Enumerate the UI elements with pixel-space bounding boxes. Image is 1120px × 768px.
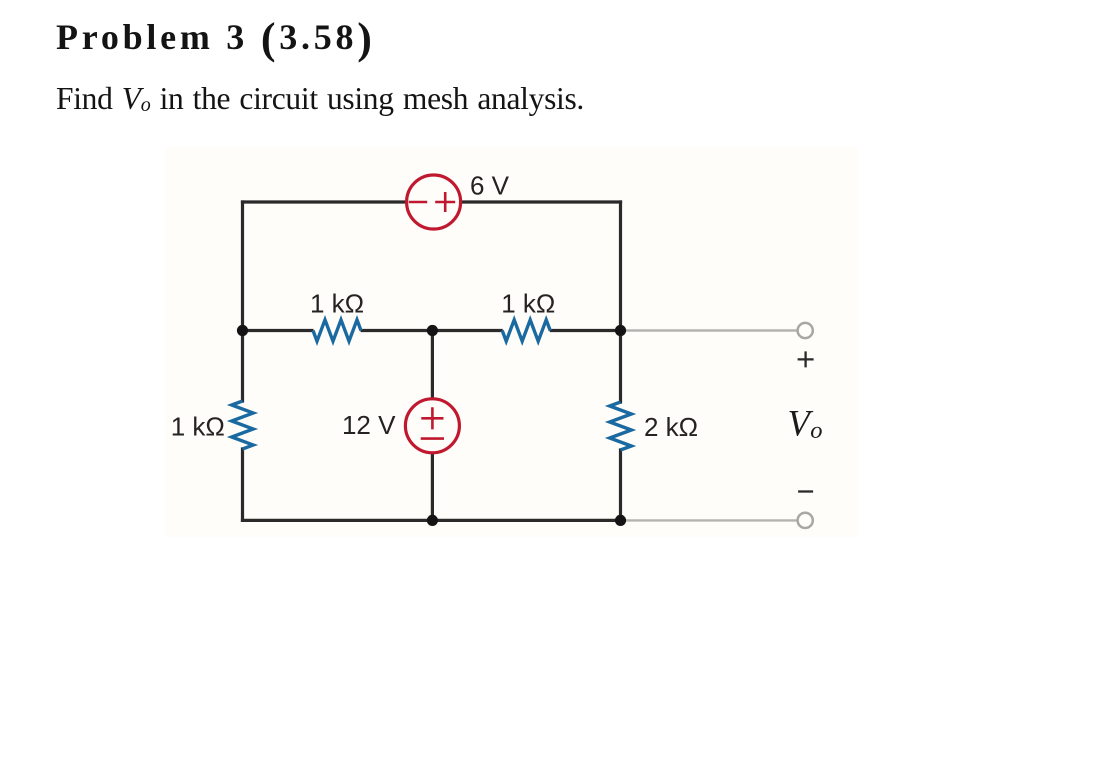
voltage source V2 12V circle — [405, 399, 459, 453]
resistor R1 1 kOhm left vertical zigzag — [232, 401, 254, 449]
wire: middle row, R2 to R3 (through node B) — [361, 329, 503, 332]
terminal: open circle, top output — [798, 323, 813, 338]
label: 2 kOhm (right resistor) — [644, 412, 698, 442]
node B junction dot (center / middle row) — [427, 325, 438, 336]
label: 6 V — [470, 170, 510, 200]
wire: left vertical upper segment — [241, 202, 244, 401]
label: Vo output voltage — [788, 403, 823, 445]
wire: gray output lead, bottom — [622, 519, 797, 521]
label: 1 kOhm (top-left resistor) — [310, 288, 364, 318]
wire: bottom horizontal — [243, 519, 621, 522]
resistor R4 2 kOhm right vertical zigzag — [610, 402, 632, 450]
label: plus sign at output — [798, 351, 814, 367]
svg-text:1 kΩ: 1 kΩ — [171, 411, 225, 441]
node E junction dot (center / bottom row) — [427, 515, 438, 526]
resistor R2 1 kOhm top-left horizontal zigzag — [313, 320, 361, 341]
node D junction dot (right / bottom row) — [615, 515, 626, 526]
title: Problem 3 (3.58) — [56, 19, 376, 55]
svg-text:1 kΩ: 1 kΩ — [501, 288, 555, 318]
svg-text:6 V: 6 V — [470, 170, 510, 200]
body text: Find Vo in the circuit using mesh analysis. — [56, 83, 584, 115]
wire: gray output lead, top — [622, 329, 797, 331]
label: 1 kOhm (left resistor) — [171, 411, 225, 441]
figure background panel — [166, 147, 859, 537]
terminal: open circle, bottom output — [798, 513, 813, 528]
wire: top horizontal (node A to node D top) — [243, 200, 621, 203]
wire: right vertical lower segment — [619, 450, 622, 520]
voltage source V1 plus sign — [435, 192, 455, 212]
node A junction dot (left / middle row) — [237, 325, 248, 336]
label: 1 kOhm (top-right resistor) — [501, 288, 555, 318]
svg-text:12 V: 12 V — [342, 410, 396, 440]
resistor R3 1 kOhm top-right horizontal zigzag — [502, 320, 550, 341]
wire: right vertical upper segment — [619, 202, 622, 402]
svg-text:2 kΩ: 2 kΩ — [644, 412, 698, 442]
voltage source V1 6V circle — [407, 175, 461, 229]
label: minus sign at output — [798, 490, 813, 492]
svg-text:1 kΩ: 1 kΩ — [310, 288, 364, 318]
wire: center branch vertical (node B down through 12V source to node E) — [431, 331, 434, 521]
voltage source V2 minus sign — [421, 437, 444, 440]
node C junction dot (right / middle row) — [615, 325, 626, 336]
voltage source V1 minus sign — [409, 201, 427, 204]
wire: middle row, R3 to node C — [550, 329, 621, 332]
label: 12 V — [342, 410, 396, 440]
wire: left vertical lower segment — [241, 449, 244, 520]
voltage source V2 plus sign — [421, 407, 443, 429]
wire: middle row, node A to R2 — [243, 329, 314, 332]
